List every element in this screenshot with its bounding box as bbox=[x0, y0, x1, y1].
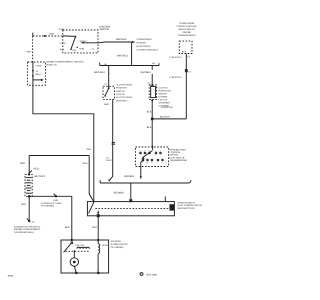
svg-text:LOCK: LOCK bbox=[60, 42, 66, 45]
svg-text:CLUTCH PEDAL: CLUTCH PEDAL bbox=[116, 83, 133, 86]
svg-text:BLK: BLK bbox=[147, 126, 152, 129]
svg-text:(2 BLK/YEL): (2 BLK/YEL) bbox=[161, 106, 173, 109]
svg-text:POSITION: POSITION bbox=[116, 87, 127, 90]
svg-text:WHT/BLU: WHT/BLU bbox=[141, 71, 152, 74]
svg-text:TRANSMISSION): TRANSMISSION) bbox=[170, 159, 188, 162]
svg-text:PULL-IN: PULL-IN bbox=[76, 244, 85, 247]
svg-text:RED: RED bbox=[87, 148, 92, 151]
svg-text:(LEFT SIDE OF: (LEFT SIDE OF bbox=[170, 156, 186, 159]
svg-text:POWERTRAIN: POWERTRAIN bbox=[179, 22, 194, 25]
svg-text:RED: RED bbox=[34, 168, 39, 171]
svg-text:ENGINE COMPARTMENT: ENGINE COMPARTMENT bbox=[14, 228, 41, 231]
svg-text:PARK/NEUTRAL: PARK/NEUTRAL bbox=[170, 148, 187, 151]
svg-text:OFF: OFF bbox=[72, 49, 77, 52]
svg-text:95I05: 95I05 bbox=[8, 274, 14, 277]
svg-text:COMPARTMENT): COMPARTMENT) bbox=[178, 34, 196, 37]
svg-text:BATTERY: BATTERY bbox=[34, 175, 45, 178]
svg-text:(RIGHT SIDE OF: (RIGHT SIDE OF bbox=[178, 28, 196, 31]
svg-text:(TOP OF: (TOP OF bbox=[116, 93, 125, 96]
svg-text:SUPPORT): SUPPORT) bbox=[116, 99, 128, 102]
svg-text:POSITION: POSITION bbox=[170, 151, 181, 154]
svg-text:STARTER: STARTER bbox=[111, 240, 121, 243]
svg-text:BLK: BLK bbox=[92, 226, 97, 229]
svg-text:(FUSE 31): (FUSE 31) bbox=[46, 63, 57, 66]
svg-text:OF ENGINE): OF ENGINE) bbox=[111, 246, 124, 249]
svg-text:WHT: WHT bbox=[27, 51, 33, 54]
svg-text:RED: RED bbox=[20, 162, 25, 165]
svg-text:ON FENDER WALL): ON FENDER WALL) bbox=[14, 231, 34, 234]
svg-text:(ELECTRICAL: (ELECTRICAL bbox=[137, 45, 152, 48]
svg-text:SWITCH: SWITCH bbox=[116, 90, 125, 93]
svg-text:G05 1993: G05 1993 bbox=[147, 274, 158, 277]
svg-text:(LOWER: (LOWER bbox=[159, 95, 168, 98]
svg-text:RUN: RUN bbox=[79, 48, 84, 51]
svg-text:ACC: ACC bbox=[60, 48, 65, 51]
svg-text:BLK: BLK bbox=[105, 103, 110, 106]
svg-text:FUSE: FUSE bbox=[36, 64, 42, 67]
svg-text:BLK: BLK bbox=[65, 226, 70, 229]
svg-text:C450: C450 bbox=[59, 28, 65, 31]
svg-text:WHT/BLK: WHT/BLK bbox=[116, 38, 127, 41]
svg-text:CLUTCH: CLUTCH bbox=[159, 86, 168, 89]
svg-text:CONTROL MODULE: CONTROL MODULE bbox=[176, 25, 197, 28]
svg-text:(LOWER FRONT: (LOWER FRONT bbox=[111, 243, 129, 246]
svg-text:STARTER RELAY: STARTER RELAY bbox=[178, 202, 196, 205]
svg-text:SWITCH: SWITCH bbox=[100, 28, 110, 31]
svg-text:HOLD: HOLD bbox=[102, 244, 108, 247]
svg-text:BLK: BLK bbox=[147, 111, 152, 114]
svg-text:INTERLOCK: INTERLOCK bbox=[159, 89, 172, 92]
svg-text:RED/BLK: RED/BLK bbox=[114, 191, 125, 194]
svg-text:STEERING: STEERING bbox=[159, 101, 170, 104]
svg-text:BLK/WHT: BLK/WHT bbox=[160, 116, 170, 119]
svg-text:(40A): (40A) bbox=[35, 73, 41, 76]
svg-text:WHT/BLU: WHT/BLU bbox=[94, 71, 105, 74]
svg-text:(2 BLK/YEL): (2 BLK/YEL) bbox=[170, 56, 182, 59]
svg-text:SWITCH: SWITCH bbox=[159, 92, 168, 95]
svg-text:CONTROL MODULE): CONTROL MODULE) bbox=[137, 49, 159, 52]
svg-text:(LOWER LEFT FRONT OF: (LOWER LEFT FRONT OF bbox=[14, 225, 41, 228]
svg-text:G101: G101 bbox=[53, 199, 59, 202]
svg-text:SWITCH: SWITCH bbox=[170, 154, 179, 157]
svg-text:(LEFT FENDER APRON: (LEFT FENDER APRON bbox=[178, 204, 202, 207]
svg-text:ENGINE: ENGINE bbox=[183, 31, 192, 34]
svg-text:C550: C550 bbox=[49, 32, 55, 35]
svg-text:STS: STS bbox=[182, 50, 187, 53]
svg-text:RED/BLK: RED/BLK bbox=[124, 175, 135, 178]
svg-text:NEAR BATTERY): NEAR BATTERY) bbox=[178, 207, 196, 210]
svg-text:CLUTCH PEDAL: CLUTCH PEDAL bbox=[116, 96, 133, 99]
svg-text:BLK: BLK bbox=[22, 203, 27, 206]
svg-text:2 BLK: 2 BLK bbox=[106, 159, 112, 162]
svg-text:WHT/BLU: WHT/BLU bbox=[117, 55, 128, 58]
svg-text:(LOWER LEFT SIDE: (LOWER LEFT SIDE bbox=[41, 202, 62, 205]
svg-text:SYSTEM: SYSTEM bbox=[137, 42, 146, 45]
svg-text:(2 BLK/YEL): (2 BLK/YEL) bbox=[170, 76, 182, 79]
svg-text:OF ENGINE): OF ENGINE) bbox=[41, 205, 54, 208]
svg-text:POWERTRAIN: POWERTRAIN bbox=[137, 38, 152, 41]
svg-text:LEFT OF: LEFT OF bbox=[159, 98, 169, 101]
svg-text:ENGINE COMPARTMENT FUSE BOX: ENGINE COMPARTMENT FUSE BOX bbox=[46, 60, 84, 63]
svg-text:RED: RED bbox=[83, 162, 88, 165]
